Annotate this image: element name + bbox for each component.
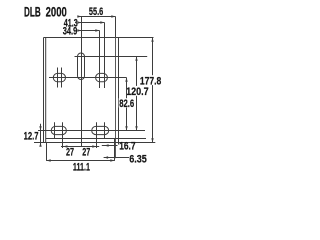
right mid slot arc mark and 34.9 extension [99, 31, 101, 89]
top slot centerline [81, 17, 83, 148]
bottom right slot [92, 126, 109, 134]
dim 34.9 [78, 30, 99, 32]
svg-text:34.9: 34.9 [63, 26, 78, 38]
svg-text:27: 27 [66, 147, 74, 159]
dim 111.1 [46, 142, 48, 161]
dim 82.6 [126, 78, 128, 131]
svg-text:12.7: 12.7 [24, 131, 39, 143]
dim 41.3 [78, 22, 104, 24]
plate inner bottom edge [46, 138, 146, 140]
dim 12.7 [40, 124, 42, 146]
svg-text:82.6: 82.6 [119, 98, 134, 110]
svg-text:27: 27 [82, 147, 90, 159]
plate outer bottom edge [34, 142, 155, 144]
dim 16.7 [102, 145, 118, 147]
svg-text:120.7: 120.7 [126, 86, 149, 98]
left mid slot arc marks [57, 68, 59, 88]
svg-text:DLB: DLB [24, 4, 41, 19]
dim 120.7 [136, 57, 138, 131]
dim 27 27 [61, 146, 99, 148]
top slot arc-center line [75, 56, 148, 58]
bottom left slot arc marks [54, 122, 56, 138]
dim 55.6 [78, 16, 115, 18]
top slot [78, 53, 85, 79]
dim 6.35 [104, 157, 129, 159]
svg-text:111.1: 111.1 [73, 162, 90, 174]
bottom right slot arc marks [96, 122, 98, 148]
plate inner right edge [118, 38, 120, 145]
plate top edge [44, 37, 154, 39]
left mid slot [53, 73, 65, 81]
bottom left slot [51, 126, 66, 134]
dim 177.8 [152, 38, 154, 143]
plate outer left edge [43, 38, 45, 143]
plate inner left edge [45, 38, 47, 143]
bottom slots centerline [38, 130, 145, 132]
svg-text:16.7: 16.7 [119, 141, 135, 153]
svg-text:6.35: 6.35 [129, 154, 147, 166]
svg-text:55.6: 55.6 [89, 6, 103, 18]
right mid slot [96, 73, 108, 81]
plate outer right edge [115, 38, 117, 159]
right mid slot arc mark and 41.3 extension [104, 23, 106, 89]
mid centerline [49, 77, 127, 79]
